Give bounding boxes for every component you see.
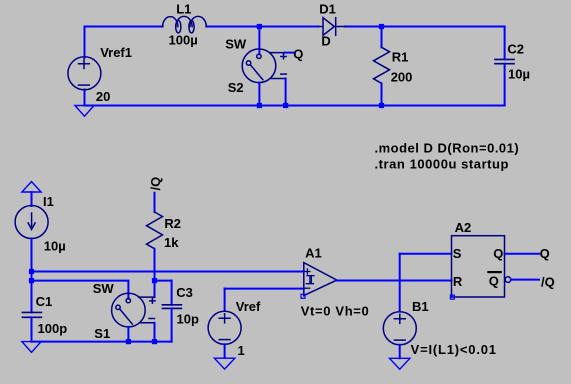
svg-text:S1: S1	[94, 326, 110, 341]
svg-text:B1: B1	[412, 299, 429, 314]
inductor L1	[163, 16, 207, 33]
svg-text:100p: 100p	[38, 321, 68, 336]
svg-text:Q: Q	[493, 246, 503, 261]
svg-text:S2: S2	[228, 80, 244, 95]
ground under Vref	[214, 358, 234, 369]
junction S2 minus on rail	[283, 103, 288, 108]
wire R2 bottom through rail1 down to S1 plus	[154, 249, 156, 297]
svg-text:D: D	[321, 34, 330, 49]
capacitor C3	[162, 305, 181, 309]
wire rail2 to S1	[32, 281, 129, 299]
voltage source Vref1	[68, 57, 101, 90]
wire Qbar output	[511, 279, 539, 281]
resistor R2	[147, 212, 163, 249]
wire C2 bottom lead	[504, 64, 506, 106]
inverter bubble on Qbar output	[505, 277, 511, 283]
wire C3 bottom lead	[171, 308, 173, 341]
svg-text:SW: SW	[93, 281, 115, 296]
wire I1 bottom to C1	[31, 239, 33, 313]
wire Vref1 bottom lead	[84, 90, 86, 106]
wire Vref bottom lead	[224, 344, 226, 358]
svg-text:D1: D1	[319, 2, 336, 17]
svg-text:100µ: 100µ	[169, 32, 198, 47]
wire R2 top lead	[154, 193, 156, 212]
wire Vref1 top lead	[84, 27, 86, 58]
wire branch to C3	[155, 280, 172, 282]
wire down to Vref	[224, 289, 226, 311]
op-amp A1 schmitt	[304, 263, 337, 296]
svg-text:Q: Q	[540, 246, 550, 261]
capacitor C1	[22, 312, 41, 317]
wire I1 top lead	[31, 192, 33, 206]
wire opamp minus input	[225, 288, 304, 290]
bsource B1	[383, 312, 416, 345]
svg-text:R1: R1	[392, 50, 409, 65]
svg-text:Q: Q	[489, 274, 499, 289]
ground under Vref1	[75, 106, 94, 117]
svg-text:S: S	[453, 246, 462, 261]
ground under B1	[390, 358, 410, 369]
capacitor C2	[495, 59, 514, 63]
wire C1 bottom lead	[31, 317, 33, 341]
overbar of Qbar	[488, 271, 500, 273]
flip-flop A2 box	[452, 236, 505, 297]
wire B1 bottom lead	[399, 345, 401, 359]
svg-text:R: R	[453, 274, 463, 289]
wire S1 bottom lead	[127, 327, 129, 342]
junction S2 bottom	[257, 103, 262, 108]
junction R1 top on rail	[379, 24, 384, 29]
svg-text:L1: L1	[176, 1, 191, 16]
svg-text:A2: A2	[455, 220, 472, 235]
wire top rail right segment	[345, 26, 505, 28]
wire B1 corner to S input	[400, 253, 452, 255]
wire Q output	[505, 253, 539, 255]
current source I1	[15, 206, 48, 239]
svg-text:1: 1	[238, 343, 245, 358]
voltage source Vref	[208, 311, 241, 344]
junction rail2 left	[29, 278, 34, 283]
junction R1 bottom on rail	[379, 103, 384, 108]
wire bottom rail of top circuit	[85, 105, 505, 107]
svg-text:C1: C1	[36, 294, 53, 309]
switch S1	[112, 293, 155, 327]
svg-text:Vref: Vref	[236, 299, 261, 314]
junction at S2 top on rail	[257, 24, 262, 29]
wire rail1 to opamp plus input	[32, 271, 304, 273]
junction S1 minus on rail	[152, 339, 157, 344]
svg-text:Vt=0 Vh=0: Vt=0 Vh=0	[301, 303, 370, 318]
junction rail1 left	[29, 269, 34, 274]
svg-text:20: 20	[96, 89, 110, 104]
svg-text:C3: C3	[176, 285, 193, 300]
unconnected pin square on A2	[450, 295, 454, 299]
svg-text:C2: C2	[507, 41, 524, 56]
wire top rail middle segment	[206, 26, 318, 28]
svg-text:SW: SW	[225, 37, 247, 52]
wire top rail left segment	[85, 26, 163, 28]
svg-text:V=I(L1)<0.01: V=I(L1)<0.01	[411, 342, 497, 357]
resistor R1	[374, 47, 390, 83]
svg-text:A1: A1	[305, 246, 322, 261]
wire B1 top vertical	[399, 254, 401, 312]
wire S2 minus control down to rail	[285, 79, 287, 106]
svg-text:Q: Q	[293, 46, 303, 61]
wire S2 plus control to node Q	[285, 52, 293, 54]
svg-text:Vref1: Vref1	[100, 45, 132, 60]
svg-text:10µ: 10µ	[44, 238, 66, 253]
ground up-pointing above I1	[22, 182, 41, 193]
svg-text:/Q: /Q	[148, 177, 163, 191]
svg-text:10µ: 10µ	[508, 66, 530, 81]
svg-text:/Q: /Q	[541, 274, 555, 289]
ground under C1	[22, 342, 41, 353]
svg-text:.model D D(Ron=0.01): .model D D(Ron=0.01)	[375, 141, 520, 156]
wire S1 minus down to bottom rail	[154, 323, 156, 342]
svg-text:I1: I1	[43, 194, 54, 209]
wire C2 top lead	[504, 27, 506, 60]
wire A1 output to R input	[337, 280, 452, 282]
switch S2	[242, 49, 286, 83]
svg-text:200: 200	[391, 69, 413, 84]
junction S1 bottom on rail	[126, 339, 131, 344]
svg-text:10p: 10p	[177, 312, 199, 327]
wire R1 bottom lead	[381, 83, 383, 105]
svg-text:.tran 10000u startup: .tran 10000u startup	[375, 157, 510, 172]
wire C3 top lead	[171, 281, 173, 305]
wire S2 top lead	[258, 27, 260, 55]
svg-text:R2: R2	[164, 216, 181, 231]
diode D1	[318, 18, 344, 36]
svg-text:1k: 1k	[164, 235, 179, 250]
wire S2 bottom lead	[258, 83, 260, 106]
junction R2 wire at rail2 branch	[152, 278, 157, 283]
wire bottom rail of bottom circuit	[32, 341, 172, 343]
wire R1 top lead	[381, 27, 383, 48]
unconnected pin square on A1	[301, 294, 305, 298]
